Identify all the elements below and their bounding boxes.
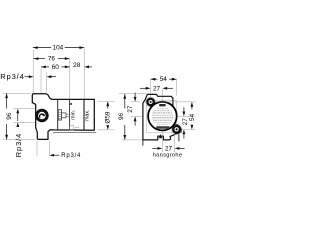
extension line x176.6 bbox=[176, 80, 178, 96]
extension line y139.6 bbox=[3, 139, 36, 141]
front body outline bbox=[143, 94, 181, 139]
dimension 60 bbox=[41, 66, 70, 68]
front body foot (bottom-right) bbox=[178, 133, 180, 142]
dimension 76 bbox=[34, 58, 70, 60]
extension line y122.4 (side port bottom tangent) bbox=[13, 121, 36, 123]
extension line x150.6 bbox=[150, 80, 152, 98]
flow arrow (bottom notch) bbox=[159, 134, 162, 138]
block screw top mark bbox=[70, 103, 72, 105]
extension line y108.6 (side port top tangent) bbox=[13, 108, 35, 110]
svg-text:96: 96 bbox=[6, 112, 13, 120]
extension line x162.4 lower bbox=[161, 131, 163, 152]
dimension 27 (front left vertical) bbox=[134, 93, 136, 98]
block divider x84 bbox=[83, 99, 85, 130]
svg-text:27: 27 bbox=[182, 118, 189, 126]
spindle screw bbox=[58, 110, 61, 120]
extension line x84.2 bbox=[83, 49, 85, 100]
dimension 27 (front right vertical) bbox=[183, 107, 185, 112]
svg-text:27: 27 bbox=[153, 85, 161, 92]
dimension 96 (side view, left) bbox=[6, 93, 8, 139]
block divider x57.7 bbox=[57, 99, 59, 130]
svg-text:54: 54 bbox=[189, 113, 196, 121]
bottom port extension x37 bbox=[36, 141, 38, 156]
dimension 27 (bottom) bbox=[152, 147, 158, 149]
big circle (cartridge cover) bbox=[148, 102, 177, 131]
bottom port extension x49.4 bbox=[48, 141, 50, 156]
extension line y93.9 bbox=[119, 93, 146, 95]
extension line y139.9 bbox=[122, 139, 147, 141]
extension line y101.2 bbox=[98, 100, 116, 102]
block bottom detail bbox=[70, 126, 74, 131]
svg-text:96: 96 bbox=[118, 113, 125, 121]
dimension 96 (front view) bbox=[124, 94, 126, 140]
extension line x69.6 bbox=[69, 60, 71, 100]
svg-text:76: 76 bbox=[48, 56, 56, 63]
extension line y101.9 right bbox=[156, 101, 196, 103]
front body left leg bbox=[142, 140, 144, 146]
block divider x69.5 bbox=[69, 99, 71, 130]
dimension 104 bbox=[33, 47, 84, 49]
extension line y116.4 right bbox=[177, 115, 195, 117]
side body outline bbox=[32, 94, 94, 140]
sticker text lines bbox=[152, 109, 173, 124]
side port ring bbox=[37, 110, 48, 121]
svg-text:Ø59: Ø59 bbox=[104, 111, 111, 124]
extension line y129.4 right bbox=[182, 128, 196, 130]
block lower double line bbox=[53, 132, 96, 134]
svg-text:max.: max. bbox=[85, 110, 91, 121]
svg-text:28: 28 bbox=[73, 62, 81, 69]
svg-text:min.: min. bbox=[71, 110, 77, 120]
dimension 54 (top) bbox=[151, 78, 177, 80]
extension line x174.6 bbox=[174, 135, 176, 153]
svg-text:60: 60 bbox=[52, 64, 60, 71]
extension line x33 bbox=[32, 50, 34, 93]
front inner cartridge square (faint) bbox=[147, 100, 177, 133]
sticker bottom dark bar bbox=[156, 126, 169, 129]
svg-text:27: 27 bbox=[165, 146, 173, 153]
svg-text:104: 104 bbox=[53, 45, 64, 52]
extension line x41 bbox=[40, 68, 42, 93]
extension line y116.4 left bbox=[131, 115, 143, 117]
extension line y101.8 left bbox=[131, 101, 140, 103]
dimension 54 (front right vertical) bbox=[191, 102, 194, 107]
svg-text:54: 54 bbox=[160, 76, 168, 83]
svg-text:hansgrohe: hansgrohe bbox=[153, 153, 183, 159]
port top-left ring bbox=[146, 97, 156, 107]
extension line x46.6 bbox=[46, 72, 48, 93]
svg-text:Rp3/4: Rp3/4 bbox=[14, 133, 23, 157]
extension line y129.9 bbox=[98, 129, 116, 131]
extension line x162.4 upper bbox=[161, 89, 163, 101]
dimension 27 (top) bbox=[140, 87, 146, 89]
port bottom-right ring bbox=[171, 124, 181, 134]
label Rp3/4 (bottom port) bbox=[49, 154, 54, 157]
svg-text:Rp3/4: Rp3/4 bbox=[0, 72, 25, 81]
sticker top logo bar bbox=[159, 104, 165, 106]
label Rp3/4 (side port, vertical) bbox=[16, 109, 19, 114]
svg-text:27: 27 bbox=[127, 105, 134, 113]
dimension O59 bbox=[106, 101, 109, 106]
svg-text:Rp3/4: Rp3/4 bbox=[61, 153, 81, 159]
extension line y93.3 bbox=[3, 92, 31, 94]
